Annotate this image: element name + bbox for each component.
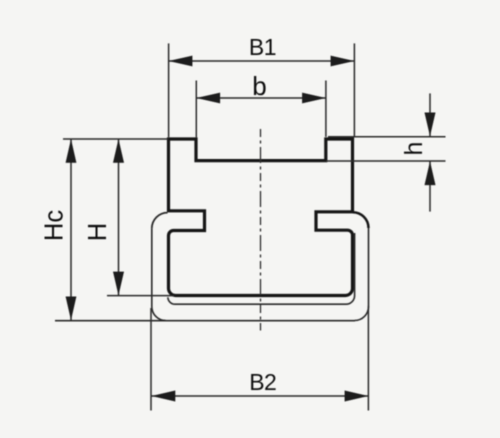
b arrow right (302, 93, 326, 104)
H dimension line (118, 139, 120, 295)
B2 extension line left (150, 308, 152, 411)
h arrow lower (pointing up) (425, 161, 436, 185)
B1 extension line left (168, 43, 170, 137)
profile top-right outer corner arc (thick) (353, 212, 369, 228)
h dimension line upper (429, 93, 431, 136)
b dimension line (196, 97, 326, 99)
B1 extension line right (353, 43, 355, 137)
profile main section (thick outline) (169, 139, 353, 296)
svg-text:B1: B1 (249, 34, 276, 60)
B2 arrow right (345, 391, 369, 402)
Hc dimension line (70, 139, 72, 320)
B1 arrow right (331, 56, 355, 67)
B2 extension line right (367, 306, 369, 411)
h dimension line lower (429, 161, 431, 211)
B1 arrow left (169, 56, 193, 67)
b extension line left (195, 81, 197, 138)
outer profile left wall (152, 228, 166, 320)
b arrow left (196, 93, 220, 104)
outer profile right wall (355, 228, 369, 321)
centerline (260, 129, 262, 331)
h lower extension line (326, 160, 446, 162)
svg-text:H: H (84, 223, 112, 241)
H bottom extension line (107, 295, 174, 297)
B2 dimension line (151, 395, 368, 397)
svg-text:Hc: Hc (41, 210, 69, 241)
svg-text:h: h (400, 142, 428, 156)
H arrow top (113, 139, 124, 163)
svg-text:B2: B2 (249, 369, 276, 395)
H arrow bottom (113, 272, 124, 296)
material offset line around bottom (168, 233, 355, 304)
Hc arrow top (66, 139, 77, 163)
Hc arrow bottom (66, 297, 77, 321)
profile top-left outer corner arc (152, 213, 168, 229)
B2 arrow left (152, 391, 176, 402)
B1 dimension line (169, 60, 355, 62)
h arrow upper (pointing down) (425, 113, 436, 137)
b extension line right (325, 81, 327, 137)
svg-text:b: b (252, 71, 266, 101)
outer profile bottom + Hc extension line (55, 320, 355, 322)
h upper extension line (328, 136, 446, 138)
top extension line (Hc/H) (63, 138, 168, 140)
